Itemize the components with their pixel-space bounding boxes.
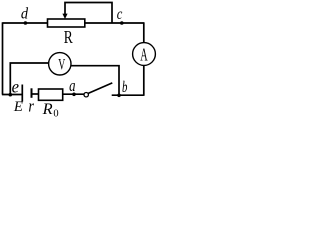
svg-text:r: r [28,97,34,116]
wire left vertical [2,22,4,94]
svg-text:d: d [21,5,29,22]
battery cell E r : short plate [31,88,33,98]
svg-text:e: e [12,76,19,96]
switch pivot circle [84,93,88,97]
wire top-right c segment [85,22,144,24]
wire top-left d segment [3,22,48,24]
wire rheostat top loop [65,3,112,24]
svg-text:R: R [42,101,53,117]
resistor R (rheostat body) [48,19,85,27]
wire battery to R0 [32,93,39,95]
svg-text:a: a [69,76,75,95]
wire R0 to switch pivot [63,93,84,95]
svg-text:c: c [117,6,123,23]
svg-text:E: E [13,99,23,115]
resistor R0 [39,89,63,100]
wire ammeter top lead [143,22,145,42]
ammeter A circle [133,43,156,66]
svg-text:A: A [140,44,148,64]
wire bottom-left to battery [2,94,22,96]
node b dot [117,94,121,98]
svg-text:V: V [58,57,65,74]
svg-text:0: 0 [53,109,58,118]
svg-text:R: R [64,27,73,47]
battery cell E r : long plate [21,85,23,102]
wire voltmeter left lead [10,63,48,95]
node d dot [24,21,28,25]
voltmeter V circle [49,53,71,75]
node a dot [72,93,76,97]
node c dot [120,21,124,25]
wire switch stub to b to ammeter corner [112,94,144,96]
node e dot [9,93,13,97]
wire ammeter down to b wire [143,66,145,96]
wire voltmeter right lead [71,66,119,96]
switch blade [88,83,112,94]
svg-text:b: b [122,79,127,96]
rheostat arrow head [62,14,67,19]
